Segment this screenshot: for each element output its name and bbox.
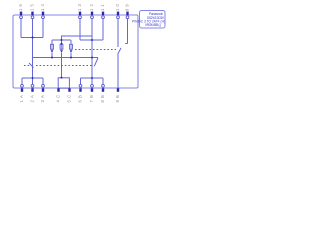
svg-text:VRGM 805 (-): VRGM 805 (-) — [145, 23, 161, 27]
wire lead through R1 — [51, 44, 53, 50]
pin 7 pad — [91, 88, 93, 92]
junction node net A / D3 — [70, 57, 72, 59]
pin 13 terminal circle — [79, 16, 82, 19]
wire bottom-left bus — [22, 77, 43, 79]
pin 8 terminal circle — [102, 84, 105, 87]
wire pin16 to rail — [20, 19, 22, 38]
mechanical linkage (dashed, upper) — [75, 49, 116, 51]
pin 11 pad — [102, 12, 104, 16]
junction node rail/pin15 — [32, 37, 34, 39]
svg-text:16: 16 — [18, 2, 23, 11]
svg-text:15: 15 — [30, 2, 35, 11]
pin 10 terminal circle — [117, 16, 120, 19]
resistor R3 — [70, 44, 73, 49]
svg-text:10: 10 — [115, 2, 120, 11]
svg-text:11: 11 — [100, 2, 105, 11]
wire stub to R1 — [51, 40, 53, 44]
pin 14 pad — [42, 12, 44, 16]
svg-text:9b: 9b — [125, 2, 130, 11]
resistor R1 — [51, 44, 54, 49]
diode D2 — [60, 50, 63, 53]
pin 9 terminal circle — [126, 16, 129, 19]
pin 13 pad — [79, 12, 81, 16]
junction node coil feed entry — [61, 77, 63, 79]
pin 10 pad — [117, 12, 119, 16]
wire stub to R2 and coil feed — [61, 40, 63, 78]
wire lead through R3 — [70, 44, 72, 50]
note box (part label) — [140, 11, 166, 29]
pin 5 pad (coil) — [68, 88, 70, 92]
pin 2 terminal circle — [31, 84, 34, 87]
svg-text:2A: 2A — [30, 93, 35, 103]
wire pin11 to right bus — [102, 19, 104, 40]
wire drop to pin 1 — [21, 78, 23, 84]
wire bottom-right bus — [81, 77, 104, 79]
junction node net A / D1 — [51, 57, 53, 59]
pin 12 pad — [91, 12, 93, 16]
pin 3 terminal circle — [42, 84, 45, 87]
wire stub to R3 — [70, 40, 72, 44]
wire drop to pin 7 — [91, 78, 93, 84]
wire drop to pin 8 — [102, 78, 104, 84]
pin 3 pad — [42, 88, 44, 92]
wire rail pins 16-15-14 — [21, 37, 43, 39]
wire contact common down to bottom pad — [117, 54, 119, 89]
contact blade left armature — [29, 63, 34, 68]
wire pin12 vertical to bottom bus — [91, 19, 93, 78]
pin 15 terminal circle — [31, 16, 34, 19]
wire trio bus — [52, 39, 71, 41]
svg-text:9B: 9B — [115, 93, 120, 103]
wire pin13 to right bus — [79, 19, 81, 40]
resistor R2 — [60, 44, 63, 49]
junction node above R2 — [61, 43, 63, 45]
svg-text:1A: 1A — [19, 93, 24, 103]
svg-text:7B: 7B — [89, 93, 94, 103]
wire pin10 to contact — [117, 19, 119, 47]
svg-text:12: 12 — [89, 2, 94, 11]
wire right rail bus — [80, 39, 103, 41]
junction node bottom-right bus / pin12 wire — [91, 77, 93, 79]
pin 2 pad — [31, 88, 33, 92]
pin 16 (top-left) pad — [20, 12, 22, 16]
pin 9 pad — [126, 12, 128, 16]
pin 1 terminal circle — [21, 84, 24, 87]
wire net A horizontal — [33, 57, 99, 59]
wire drop to pin 3 — [42, 78, 44, 84]
wire trio riser to net B — [62, 36, 93, 40]
wire pin15 vertical to bottom bus — [32, 19, 34, 84]
junction node trio bus riser — [61, 39, 63, 41]
junction node bottom-left bus / pin15 wire — [32, 77, 34, 79]
svg-text:5C: 5C — [67, 93, 72, 103]
relay case outline — [13, 15, 138, 88]
pin 12 terminal circle — [91, 16, 94, 19]
wire drop to pin 6 — [80, 78, 82, 84]
wire D3 to net A — [70, 53, 72, 58]
wire D1 to net A — [51, 53, 53, 58]
contact blade SPDT switch — [118, 48, 121, 54]
pin 8 pad — [102, 88, 104, 92]
diode D1 — [51, 50, 54, 53]
junction node right bus / pin12 — [91, 39, 93, 41]
mechanical linkage (dashed, lower) — [36, 65, 93, 67]
wire lead through R2 — [61, 44, 63, 50]
pin contact-common pad — [117, 88, 119, 92]
coil K1 — [58, 78, 69, 88]
junction node net A / pin12 wire — [91, 57, 93, 59]
svg-text:3A: 3A — [40, 93, 45, 103]
svg-text:13: 13 — [77, 2, 82, 11]
svg-text:8B: 8B — [100, 93, 105, 103]
svg-text:4C: 4C — [56, 93, 61, 103]
svg-text:6B: 6B — [78, 93, 83, 103]
pin 1 pad — [21, 88, 23, 92]
pin 4 pad (coil) — [57, 88, 59, 92]
pin 14 terminal circle — [42, 16, 45, 19]
pin 6 pad — [79, 88, 81, 92]
pin 6 terminal circle — [79, 84, 82, 87]
contact blade right armature — [94, 58, 98, 67]
pin 16 terminal circle — [20, 16, 23, 19]
pin 7 terminal circle — [91, 84, 94, 87]
pin 15 pad — [31, 12, 33, 16]
mechanical linkage (dashed, lower-left) — [24, 65, 30, 67]
diode D3 — [70, 50, 73, 53]
pin 11 terminal circle — [102, 16, 105, 19]
svg-text:14: 14 — [40, 2, 45, 11]
wire pin14 to rail — [42, 19, 44, 38]
wire pin9 fixed contact — [127, 19, 129, 44]
fixed contact foot — [125, 43, 127, 45]
